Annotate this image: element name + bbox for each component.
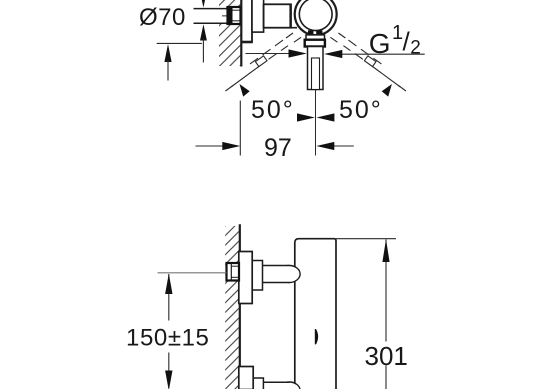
lever neck [305, 40, 325, 47]
301 top extension line [336, 238, 396, 240]
G 1/2 leader line with arrow to lever [340, 53, 425, 55]
svg-text:2: 2 [410, 37, 421, 58]
left swing phantom line B (dashed) [250, 33, 293, 64]
svg-text:50°: 50° [339, 96, 383, 124]
body button mark [315, 329, 318, 344]
wall line (side view) [239, 224, 241, 389]
301 dimension line and arrow [385, 240, 387, 342]
right 50-degree inner arrowhead at centerline [317, 113, 335, 121]
lower escutcheon (side view) [239, 367, 253, 389]
valve body (top view) [264, 4, 291, 27]
svg-text:G: G [369, 28, 391, 59]
left leader line with arrow to lever [246, 53, 293, 55]
150 dimension line and arrows [168, 274, 170, 321]
control knob ring inner circle [299, 0, 332, 31]
body (side view) [295, 239, 336, 389]
union nut (top view) [228, 7, 241, 24]
upper escutcheon (side view) [239, 252, 252, 304]
right phantom lever tip rectangle [364, 56, 376, 67]
upper centerline / 150 extension line [158, 272, 227, 274]
upper union nut (side view) [227, 263, 240, 281]
lower mounting step (side view) [253, 378, 263, 389]
mounting step (top view) [252, 0, 264, 32]
escutcheon (top view) [242, 0, 253, 42]
svg-text:301: 301 [365, 341, 408, 371]
svg-text:Ø70: Ø70 [139, 4, 186, 31]
right 50-degree arc arrowhead [382, 84, 392, 97]
upper inlet ball union bump [279, 266, 301, 283]
svg-text:50°: 50° [251, 96, 295, 124]
upper supply pipe (side view) [263, 266, 290, 283]
svg-text:1: 1 [392, 22, 403, 44]
left 50-degree arc arrowhead [240, 84, 250, 97]
knob bottom tabs [308, 30, 313, 34]
lever collar [306, 35, 325, 40]
right swing phantom line B (dashed) [338, 33, 381, 64]
lower supply pipe (side view) [263, 382, 289, 389]
escutcheon dimension arrow (up) [164, 44, 171, 62]
left 50-degree inner arrowhead at centerline [297, 113, 315, 121]
lever shaft inner face [312, 58, 320, 90]
left phantom lever tip rectangle [255, 56, 267, 67]
97 dimension line with outside arrows [196, 145, 225, 147]
svg-text:150±15: 150±15 [126, 324, 210, 351]
right swing phantom line A with arc arrow [330, 37, 406, 91]
escutcheon bottom extension line [157, 42, 202, 44]
supply pipe stub (top view) [194, 9, 228, 24]
svg-text:97: 97 [264, 134, 292, 162]
wall line (top view) [240, 0, 242, 67]
wall hatching (top view) [219, 0, 241, 66]
97 dimension left extension line [239, 101, 241, 156]
upper mounting step (side view) [252, 261, 262, 291]
lever shaft [308, 47, 324, 90]
lower inlet ball union bump [279, 382, 301, 389]
left swing phantom line A with arc arrow [226, 37, 302, 91]
wall hatching (side view) [225, 226, 239, 389]
pipe diameter dimension line and arrows [200, 0, 207, 8]
control knob ring outer circle [295, 0, 337, 35]
lever centerline extension [315, 90, 317, 156]
